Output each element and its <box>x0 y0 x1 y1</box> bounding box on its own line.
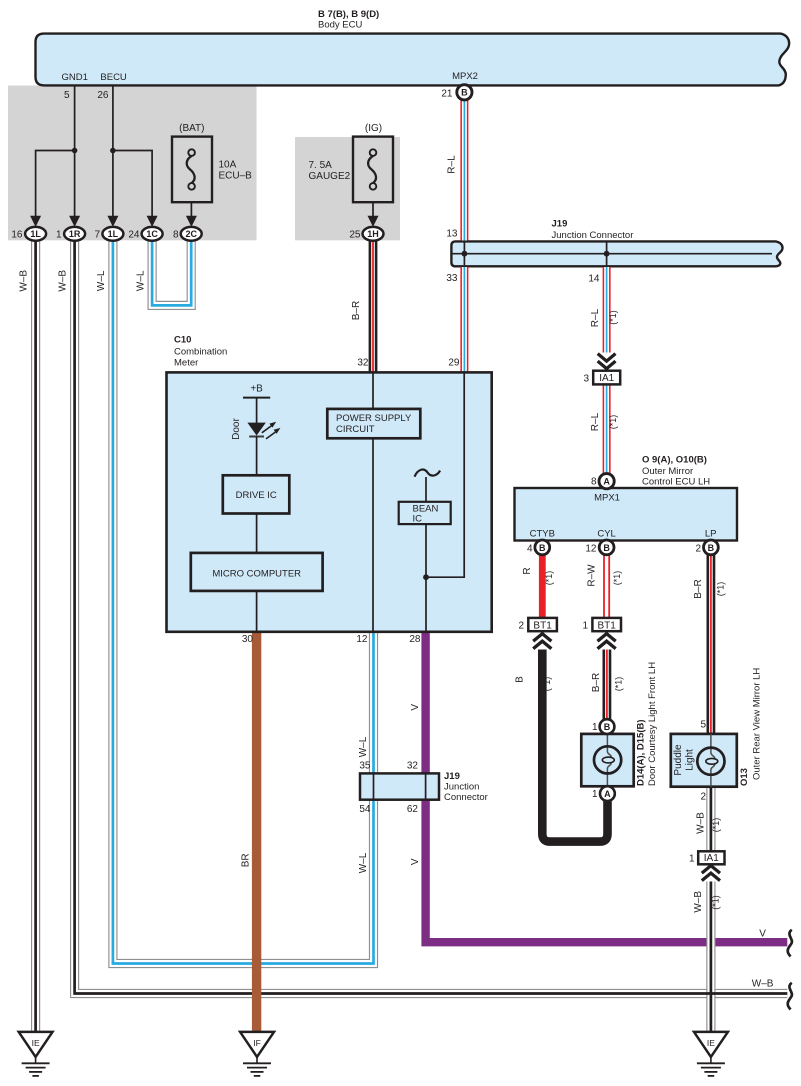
svg-text:MICRO COMPUTER: MICRO COMPUTER <box>212 568 301 579</box>
svg-text:13: 13 <box>446 229 458 240</box>
svg-text:POWER SUPPLY: POWER SUPPLY <box>336 413 412 424</box>
pin oval 2C(8) <box>181 227 202 241</box>
svg-text:7. 5A: 7. 5A <box>309 160 333 171</box>
LP pin circle <box>704 540 719 555</box>
wire stub through J19 (14) <box>606 243 608 266</box>
wire W-B from 1R pin down and right to edge <box>75 234 788 994</box>
CYL pin circle <box>599 540 614 555</box>
MPX1 outer mirror control ECU box <box>515 488 738 541</box>
svg-text:V: V <box>410 704 421 711</box>
svg-text:V: V <box>759 929 766 940</box>
chevron arrows up below BT1 left <box>533 634 551 642</box>
svg-text:2: 2 <box>700 792 706 803</box>
svg-text:(*1): (*1) <box>711 895 721 910</box>
svg-text:Junction Connector: Junction Connector <box>552 230 634 241</box>
pin oval 1H(25) <box>363 227 384 241</box>
DRIVE IC box <box>223 475 289 513</box>
svg-text:J19: J19 <box>444 771 460 782</box>
junction dot BECU <box>110 148 116 154</box>
svg-text:1R: 1R <box>69 229 81 239</box>
svg-text:LP: LP <box>705 529 717 540</box>
wire R-L pin B to J19 pin13 <box>460 97 468 241</box>
svg-text:Body ECU: Body ECU <box>318 20 362 31</box>
wire stub through J19 (13/33) <box>463 243 465 266</box>
svg-text:W–B: W–B <box>58 270 69 292</box>
wire B-R LP to puddle light <box>707 549 716 734</box>
svg-text:W–B: W–B <box>752 979 774 990</box>
svg-text:24: 24 <box>128 230 140 241</box>
svg-text:(BAT): (BAT) <box>179 123 204 134</box>
svg-text:(*1): (*1) <box>542 677 552 692</box>
LED arrow 1 <box>262 426 272 433</box>
svg-text:Door Courtesy Light Front LH: Door Courtesy Light Front LH <box>647 662 658 786</box>
svg-text:(*1): (*1) <box>608 310 618 325</box>
courtesy bulb stem lines <box>607 734 611 757</box>
svg-text:W–B: W–B <box>696 812 707 834</box>
svg-text:(*1): (*1) <box>614 677 624 692</box>
door courtesy light box <box>581 734 633 786</box>
svg-text:26: 26 <box>97 90 109 101</box>
puddle bulb filament loop <box>706 758 718 764</box>
wire R-L IA1 to MPX1 pin A <box>603 385 611 476</box>
wire fuse to 2C <box>190 202 192 217</box>
stripe of long W-B horizontal <box>75 234 788 994</box>
IA1 connector box (3) <box>593 371 620 385</box>
CTYB pin circle <box>535 540 550 555</box>
svg-text:CIRCUIT: CIRCUIT <box>336 424 375 435</box>
wire LED to DRIVE IC <box>256 436 258 476</box>
svg-text:2: 2 <box>518 621 524 632</box>
LED D (door) triangle <box>247 423 265 436</box>
svg-text:32: 32 <box>357 358 369 369</box>
svg-text:12: 12 <box>356 634 368 645</box>
pin oval 1C(24) <box>142 227 163 241</box>
svg-text:B 7(B), B 9(D): B 7(B), B 9(D) <box>318 9 379 20</box>
svg-text:62: 62 <box>407 804 419 815</box>
courtesy bulb filament loop <box>602 757 614 763</box>
wire W-L loop 1C to 2C <box>152 234 191 305</box>
chevron arrows down (above IA1 top) <box>598 354 616 362</box>
svg-text:A: A <box>604 789 611 799</box>
stripe of right W-B vertical <box>710 882 713 1032</box>
ground IF <box>240 1032 274 1057</box>
svg-text:(*1): (*1) <box>711 818 721 833</box>
break squiggle W-B wire right <box>788 983 792 1010</box>
svg-text:W–L: W–L <box>136 270 147 291</box>
svg-text:W–L: W–L <box>358 852 369 873</box>
svg-text:21: 21 <box>441 89 453 100</box>
junction dot BEAN line <box>423 574 429 580</box>
junction dot GND1 <box>72 148 78 154</box>
branch pin29 line inside meter <box>426 373 464 577</box>
combination meter C10 box <box>167 372 492 631</box>
wire W-B right vertical (below IA1 to ground IE) <box>706 882 715 1032</box>
svg-text:10A: 10A <box>219 160 237 171</box>
svg-text:BT1: BT1 <box>533 620 552 631</box>
LED arrow 2 <box>266 432 276 439</box>
wire W-L meter pin12 to J19 top <box>369 632 378 773</box>
svg-text:C10: C10 <box>174 335 191 346</box>
ground IE right <box>694 1032 728 1057</box>
puddle bulb circle <box>697 748 724 775</box>
svg-text:IF: IF <box>253 1038 261 1048</box>
svg-text:B: B <box>515 676 526 683</box>
svg-text:1: 1 <box>582 621 588 632</box>
svg-text:1H: 1H <box>367 229 379 239</box>
courtesy pin A circle <box>600 786 615 801</box>
ground IE left <box>19 1032 53 1057</box>
wire W-L from 1L(7) down, right, up through J19 to meter pin12 <box>113 234 374 964</box>
svg-text:8: 8 <box>173 230 179 241</box>
svg-text:B–R: B–R <box>591 673 602 692</box>
svg-text:BT1: BT1 <box>598 620 617 631</box>
svg-text:29: 29 <box>448 358 460 369</box>
svg-text:GAUGE2: GAUGE2 <box>309 171 351 182</box>
svg-text:R: R <box>522 567 533 574</box>
svg-text:Outer Mirror: Outer Mirror <box>642 466 693 477</box>
J19 junction connector (top) <box>451 241 782 266</box>
svg-text:Connector: Connector <box>444 792 488 803</box>
svg-text:R–L: R–L <box>590 412 601 431</box>
pin oval 1R(1) <box>64 227 85 241</box>
wire W-B right vertical (puddle to IA1) <box>706 787 715 852</box>
svg-text:MPX1: MPX1 <box>594 493 620 504</box>
svg-text:IE: IE <box>32 1038 40 1048</box>
svg-text:MPX2: MPX2 <box>452 71 478 82</box>
svg-text:Light: Light <box>685 749 696 771</box>
wire W-B from 1L pin to ground IE (left) <box>31 234 40 1032</box>
BT1 box right (1) <box>592 618 621 631</box>
wire squiggle to BEAN IC <box>425 477 427 502</box>
svg-text:Meter: Meter <box>174 358 198 369</box>
wire V (violet) J19 to right edge <box>426 800 788 942</box>
svg-text:A: A <box>603 477 610 487</box>
svg-text:ECU–B: ECU–B <box>219 171 253 182</box>
svg-text:16: 16 <box>11 230 23 241</box>
chevron arrows up below IA1 <box>702 866 720 874</box>
svg-text:+B: +B <box>250 384 263 395</box>
svg-text:Puddle: Puddle <box>673 744 684 776</box>
svg-text:J19: J19 <box>552 219 568 230</box>
svg-text:33: 33 <box>446 273 458 284</box>
svg-text:O 9(A), O10(B): O 9(A), O10(B) <box>642 455 707 466</box>
arrow into 1L(7) <box>107 216 118 227</box>
svg-text:28: 28 <box>409 634 421 645</box>
svg-text:(*1): (*1) <box>716 582 726 597</box>
svg-text:R–L: R–L <box>590 308 601 327</box>
wire B-R fuse 1H to meter pin32 <box>369 234 378 372</box>
MICRO COMPUTER box <box>191 553 323 591</box>
wire +B to LED <box>256 398 258 423</box>
svg-text:4: 4 <box>527 544 533 555</box>
svg-text:54: 54 <box>359 804 371 815</box>
svg-text:IA1: IA1 <box>599 373 614 384</box>
gray block GAUGE2 area <box>295 137 400 240</box>
wire pin32 through power supply to pin12 <box>372 373 374 409</box>
pin A circle <box>599 474 614 489</box>
svg-text:1: 1 <box>56 230 62 241</box>
arrow into 1H <box>368 216 379 227</box>
BT1 box left (2) <box>528 618 557 631</box>
chevron arrows up below BT1 right <box>598 634 616 642</box>
svg-text:IC: IC <box>413 514 423 525</box>
svg-text:B: B <box>539 543 546 553</box>
coil squiggle above BEAN IC <box>415 470 441 477</box>
svg-text:BECU: BECU <box>100 72 127 83</box>
wire R (red) CTYB to BT1 <box>539 549 546 618</box>
arrow into 1L <box>30 216 41 227</box>
wire B-R BT1 chevron to courtesy pin B <box>603 650 612 723</box>
svg-text:W–B: W–B <box>693 891 704 913</box>
wire branch GND1 to 1L <box>36 151 75 218</box>
fuse GAUGE2 symbol <box>370 149 377 156</box>
LED cathode bar <box>249 436 264 438</box>
courtesy pin B circle <box>600 719 615 734</box>
svg-text:IE: IE <box>707 1038 715 1048</box>
gray block left (fuse/relay area) <box>8 86 257 241</box>
svg-text:30: 30 <box>242 634 254 645</box>
BEAN IC box <box>399 502 451 524</box>
svg-text:Control ECU LH: Control ECU LH <box>642 477 710 488</box>
arrow into 2C <box>186 216 197 227</box>
svg-text:1: 1 <box>689 853 695 864</box>
svg-text:CTYB: CTYB <box>530 529 555 540</box>
puddle light box <box>671 734 737 787</box>
wire BEAN IC to pin28 <box>425 524 427 631</box>
pin oval 1L(16) <box>25 227 46 241</box>
junction dot J19 left <box>462 251 468 257</box>
wire R-W CYL to BT1 <box>603 549 610 618</box>
svg-text:W–L: W–L <box>96 270 107 291</box>
wire BR (brown) meter pin30 to ground IF <box>252 632 261 1032</box>
svg-text:B–R: B–R <box>693 579 704 598</box>
POWER SUPPLY CIRCUIT box <box>327 409 420 438</box>
svg-text:W–B: W–B <box>19 270 30 292</box>
wire R-L J19 pin14 to chevron <box>603 267 611 353</box>
wire stubs through bottom J19 <box>373 775 375 799</box>
wire MICRO COMPUTER to pin30 <box>256 591 258 631</box>
J19 internal bus line <box>452 253 772 255</box>
svg-text:1C: 1C <box>146 229 158 239</box>
break squiggle V wire right <box>788 930 792 957</box>
wire BECU drop <box>112 86 114 217</box>
svg-text:B: B <box>708 543 715 553</box>
arrow into 1C <box>147 216 158 227</box>
svg-text:1L: 1L <box>30 229 41 239</box>
svg-text:O13: O13 <box>739 768 750 786</box>
fuse ECU-B box <box>172 137 212 203</box>
svg-text:R–W: R–W <box>587 564 598 587</box>
fuse ECU-B symbol <box>188 149 195 156</box>
svg-text:3: 3 <box>583 374 589 385</box>
svg-text:12: 12 <box>585 544 597 555</box>
svg-text:14: 14 <box>588 274 600 285</box>
svg-text:DRIVE IC: DRIVE IC <box>236 490 277 501</box>
svg-text:(IG): (IG) <box>365 123 382 134</box>
svg-text:(*1): (*1) <box>612 571 622 586</box>
svg-text:1L: 1L <box>108 229 119 239</box>
pin B circle MPX2 <box>457 85 472 100</box>
wire V (violet) meter pin28 to J19 <box>421 632 429 773</box>
svg-text:(*1): (*1) <box>544 571 554 586</box>
svg-text:2: 2 <box>695 544 701 555</box>
svg-text:Junction: Junction <box>444 782 479 793</box>
svg-text:Outer Rear View Mirror LH: Outer Rear View Mirror LH <box>752 668 763 780</box>
svg-text:7: 7 <box>94 230 100 241</box>
svg-text:1: 1 <box>592 789 598 800</box>
svg-text:(*1): (*1) <box>608 415 618 430</box>
junction dot J19 right <box>604 251 610 257</box>
svg-text:Door: Door <box>231 417 242 439</box>
svg-text:V: V <box>410 858 421 865</box>
svg-text:5: 5 <box>700 720 706 731</box>
svg-text:W–L: W–L <box>358 736 369 757</box>
svg-text:IA1: IA1 <box>704 853 719 864</box>
svg-text:R–L: R–L <box>447 155 458 174</box>
courtesy bulb circle <box>594 746 621 773</box>
fuse GAUGE2 box <box>353 137 393 203</box>
svg-text:5: 5 <box>64 90 70 101</box>
Body ECU connector bar <box>36 34 790 86</box>
wire fuse GAUGE2 to 1H <box>372 202 374 217</box>
wire R-L J19 pin33 to meter pin29 <box>460 267 468 372</box>
svg-text:D14(A), D15(B): D14(A), D15(B) <box>635 719 646 786</box>
svg-text:B–R: B–R <box>351 301 362 320</box>
wire branch BECU to 1C <box>113 151 152 218</box>
svg-text:35: 35 <box>359 761 371 772</box>
svg-text:32: 32 <box>407 761 419 772</box>
puddle bulb stem lines <box>711 734 715 759</box>
svg-text:BR: BR <box>241 853 252 867</box>
IA1 connector box bottom right (1) <box>698 851 724 864</box>
svg-text:B: B <box>604 722 611 732</box>
J19 bottom junction connector box <box>360 773 439 799</box>
svg-text:Combination: Combination <box>174 347 227 358</box>
wire GND1 drop <box>74 86 76 217</box>
svg-text:GND1: GND1 <box>61 72 87 83</box>
svg-text:25: 25 <box>349 230 361 241</box>
wire DRIVE IC to MICRO COMPUTER <box>256 514 258 554</box>
+B rail <box>243 397 270 399</box>
svg-text:B: B <box>603 543 610 553</box>
svg-text:2C: 2C <box>185 229 197 239</box>
svg-text:B: B <box>461 88 468 98</box>
svg-text:8: 8 <box>591 477 597 488</box>
svg-text:CYL: CYL <box>597 529 615 540</box>
pin oval 1L(7) <box>102 227 123 241</box>
arrow into 1R <box>69 216 80 227</box>
wire B (black) BT1 chevron down, around to courtesy pin A <box>542 650 607 842</box>
svg-text:1: 1 <box>592 722 598 733</box>
